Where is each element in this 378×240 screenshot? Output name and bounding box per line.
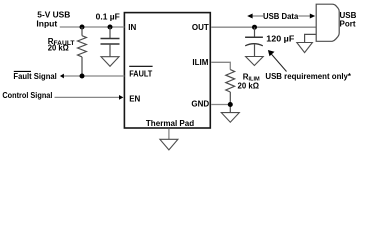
svg-text:FAULT: FAULT: [129, 69, 153, 79]
label 5-V USB Input: [36, 11, 70, 29]
label USB Port: [340, 11, 357, 29]
node junction dot 0.1uF top: [108, 25, 113, 30]
label RILIM 20 kOhm: [238, 73, 261, 91]
svg-text:Input: Input: [36, 19, 57, 28]
svg-text:USB requirement only*: USB requirement only*: [265, 72, 351, 81]
wire input 5V to IN pin: [60, 26, 125, 28]
annotation arrow to cap ground: [268, 50, 287, 72]
svg-text:20 kΩ: 20 kΩ: [48, 44, 70, 53]
label USB Data with double arrow: [247, 12, 315, 21]
svg-text:20 kΩ: 20 kΩ: [238, 82, 260, 91]
capacitor C2 120uF polarized: [245, 27, 263, 56]
op-amp U1 load switch IC body: [124, 13, 210, 128]
wire GND pin to junction: [211, 104, 230, 106]
capacitor C1 0.1uF: [101, 27, 120, 57]
ground under 120uF: [246, 57, 264, 66]
USB port connector symbol: [316, 4, 339, 41]
wire OUT to USB port: [211, 26, 316, 28]
svg-text:Port: Port: [340, 20, 356, 29]
node junction dot GND/RILIM: [228, 102, 233, 107]
ground under USB port: [297, 43, 313, 53]
wire USB port shield tab: [305, 34, 317, 42]
pin FAULT label: [129, 66, 153, 78]
node junction dot RFAULT top: [80, 25, 85, 30]
label Fault Signal: [13, 71, 56, 81]
ground under thermal pad: [160, 139, 178, 150]
svg-text:EN: EN: [129, 94, 140, 103]
svg-text:Thermal Pad: Thermal Pad: [146, 119, 194, 128]
wire control signal to EN pin: [55, 96, 121, 98]
resistor RILIM: [226, 70, 235, 113]
svg-text:Fault Signal: Fault Signal: [13, 72, 56, 81]
resistor RFAULT: [78, 27, 87, 76]
node junction dot 120uF top: [252, 25, 257, 30]
svg-text:OUT: OUT: [192, 23, 209, 32]
svg-text:ILIM: ILIM: [192, 58, 208, 67]
node junction dot fault line: [80, 74, 85, 79]
svg-text:Control Signal: Control Signal: [2, 91, 52, 100]
ground under GND junction: [221, 113, 239, 123]
wire fault signal to FAULT pin: [63, 75, 125, 77]
svg-text:120 µF: 120 µF: [266, 35, 294, 44]
arrowhead control signal right into EN: [119, 95, 123, 100]
svg-text:5-V USB: 5-V USB: [37, 11, 70, 20]
label RFAULT 20 kOhm: [48, 37, 76, 53]
arrowhead fault signal left: [60, 74, 64, 79]
wire thermal pad to ground: [168, 129, 170, 140]
svg-text:0.1 µF: 0.1 µF: [96, 12, 120, 21]
svg-text:USB Data: USB Data: [263, 12, 299, 21]
svg-text:IN: IN: [128, 23, 136, 32]
svg-text:GND: GND: [191, 99, 209, 108]
wire ILIM pin to resistor: [211, 62, 230, 69]
ground under 0.1uF: [101, 57, 119, 67]
